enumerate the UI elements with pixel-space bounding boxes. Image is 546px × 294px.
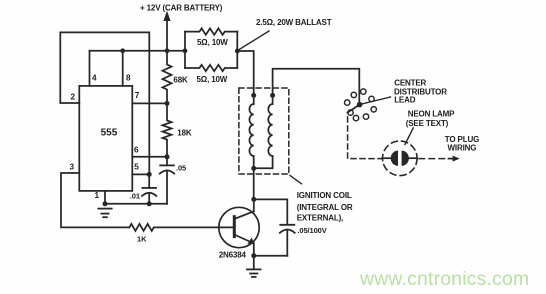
wire emitter to ground — [253, 256, 255, 269]
inductor L secondary winding — [268, 95, 272, 156]
svg-text:5Ω, 10W: 5Ω, 10W — [197, 38, 228, 47]
wire +V rail — [90, 50, 186, 52]
resistor R ballast top 5ohm 10W — [185, 28, 237, 34]
ground under transistor — [247, 269, 261, 277]
ground under 555 — [98, 209, 111, 218]
capacitor C .01 — [142, 174, 156, 203]
plug wiring arrow — [449, 158, 455, 160]
wire pin7 — [132, 102, 167, 104]
wire pin6 — [132, 156, 167, 158]
wire coil common to collector — [253, 168, 255, 199]
svg-text:LEAD: LEAD — [394, 96, 416, 105]
svg-text:7: 7 — [135, 91, 140, 100]
distributor cap terminals — [345, 89, 377, 121]
resistor R ballast bottom 5ohm 10W — [185, 65, 237, 71]
node pin8 junction — [120, 48, 125, 53]
resistor R 68K — [163, 51, 172, 104]
node pin5 junction — [147, 172, 152, 177]
svg-text:WIRING: WIRING — [448, 143, 477, 152]
svg-text:8: 8 — [126, 73, 131, 82]
svg-text:555: 555 — [101, 127, 118, 138]
node collector junction — [251, 197, 256, 202]
svg-text:+ 12V (CAR BATTERY): + 12V (CAR BATTERY) — [140, 3, 223, 12]
wire ground rail — [105, 203, 167, 205]
wire collector to snubber cap — [254, 199, 287, 224]
svg-text:18K: 18K — [177, 129, 192, 138]
node pin7 junction — [165, 101, 170, 106]
pointer line center distributor lead — [361, 97, 391, 104]
pointer line ballast label — [238, 31, 269, 50]
svg-text:4: 4 — [92, 73, 97, 82]
resistor R 1K — [129, 224, 219, 231]
wire secondary to distributor — [273, 69, 360, 105]
svg-text:2: 2 — [71, 92, 76, 101]
svg-text:3: 3 — [70, 163, 75, 172]
rotor arm — [348, 105, 360, 113]
node secondary top junction — [270, 93, 275, 98]
wire pin3 to base — [61, 173, 129, 227]
svg-text:EXTERNAL),: EXTERNAL), — [297, 214, 344, 223]
node coil bottom junction — [251, 166, 256, 171]
IC U1 555 body — [79, 86, 132, 191]
wire ballast to coil — [237, 51, 253, 95]
pointer line ignition coil label — [290, 176, 302, 184]
svg-text:NEON LAMP: NEON LAMP — [408, 110, 455, 119]
neon lamp NE1 — [382, 141, 417, 176]
svg-text:IGNITION COIL: IGNITION COIL — [297, 191, 352, 200]
capacitor C .05 — [160, 157, 174, 204]
svg-text:(INTEGRAL OR: (INTEGRAL OR — [297, 203, 353, 212]
node emitter junction — [251, 253, 256, 258]
resistor R 18K — [163, 103, 172, 156]
dashed lead distributor to neon lamp — [348, 117, 383, 159]
wire pin1 — [104, 191, 106, 204]
svg-text:68K: 68K — [173, 75, 188, 84]
+12V arrowhead — [163, 11, 170, 21]
svg-text:1: 1 — [95, 191, 100, 200]
inductor L primary winding — [249, 95, 253, 168]
svg-text:CENTER: CENTER — [394, 79, 426, 88]
wire coil bottom tie — [254, 156, 273, 168]
svg-text:.05: .05 — [176, 164, 186, 173]
wire pin4 — [89, 51, 91, 86]
svg-text:6: 6 — [134, 145, 139, 154]
svg-text:5Ω, 10W: 5Ω, 10W — [197, 75, 228, 84]
svg-text:.05/100V: .05/100V — [297, 226, 326, 235]
svg-text:www.cntronics.com: www.cntronics.com — [359, 268, 529, 290]
wire pin5 — [132, 173, 149, 175]
capacitor C .05/100V — [254, 225, 295, 256]
ballast right edge wire — [236, 32, 238, 68]
svg-text:2.5Ω, 20W BALLAST: 2.5Ω, 20W BALLAST — [256, 18, 332, 27]
svg-text:.01: .01 — [130, 191, 140, 200]
node +12V junction — [165, 48, 170, 53]
node ballast output — [235, 49, 240, 54]
pointer line neon lamp label — [405, 128, 413, 144]
dashed lead to plug wiring — [419, 158, 447, 160]
svg-text:5: 5 — [134, 162, 139, 171]
node distributor center — [357, 102, 363, 108]
node pin6 junction — [165, 154, 170, 159]
svg-text:(SEE TEXT): (SEE TEXT) — [406, 119, 449, 128]
node pin1 junction — [103, 201, 108, 206]
wire pin8 — [122, 51, 124, 86]
wire pin2 to pin5 loop — [60, 32, 149, 174]
node .01 junction — [147, 201, 152, 206]
ignition coil dashed box — [239, 88, 289, 174]
node ballast left junction — [183, 48, 188, 53]
transistor Q 2N6384 — [219, 199, 259, 255]
ballast left edge wire — [184, 32, 186, 68]
node primary top junction — [251, 93, 256, 98]
svg-text:1K: 1K — [137, 234, 147, 243]
+12V supply lead — [166, 20, 168, 51]
svg-text:2N6384: 2N6384 — [219, 251, 247, 260]
